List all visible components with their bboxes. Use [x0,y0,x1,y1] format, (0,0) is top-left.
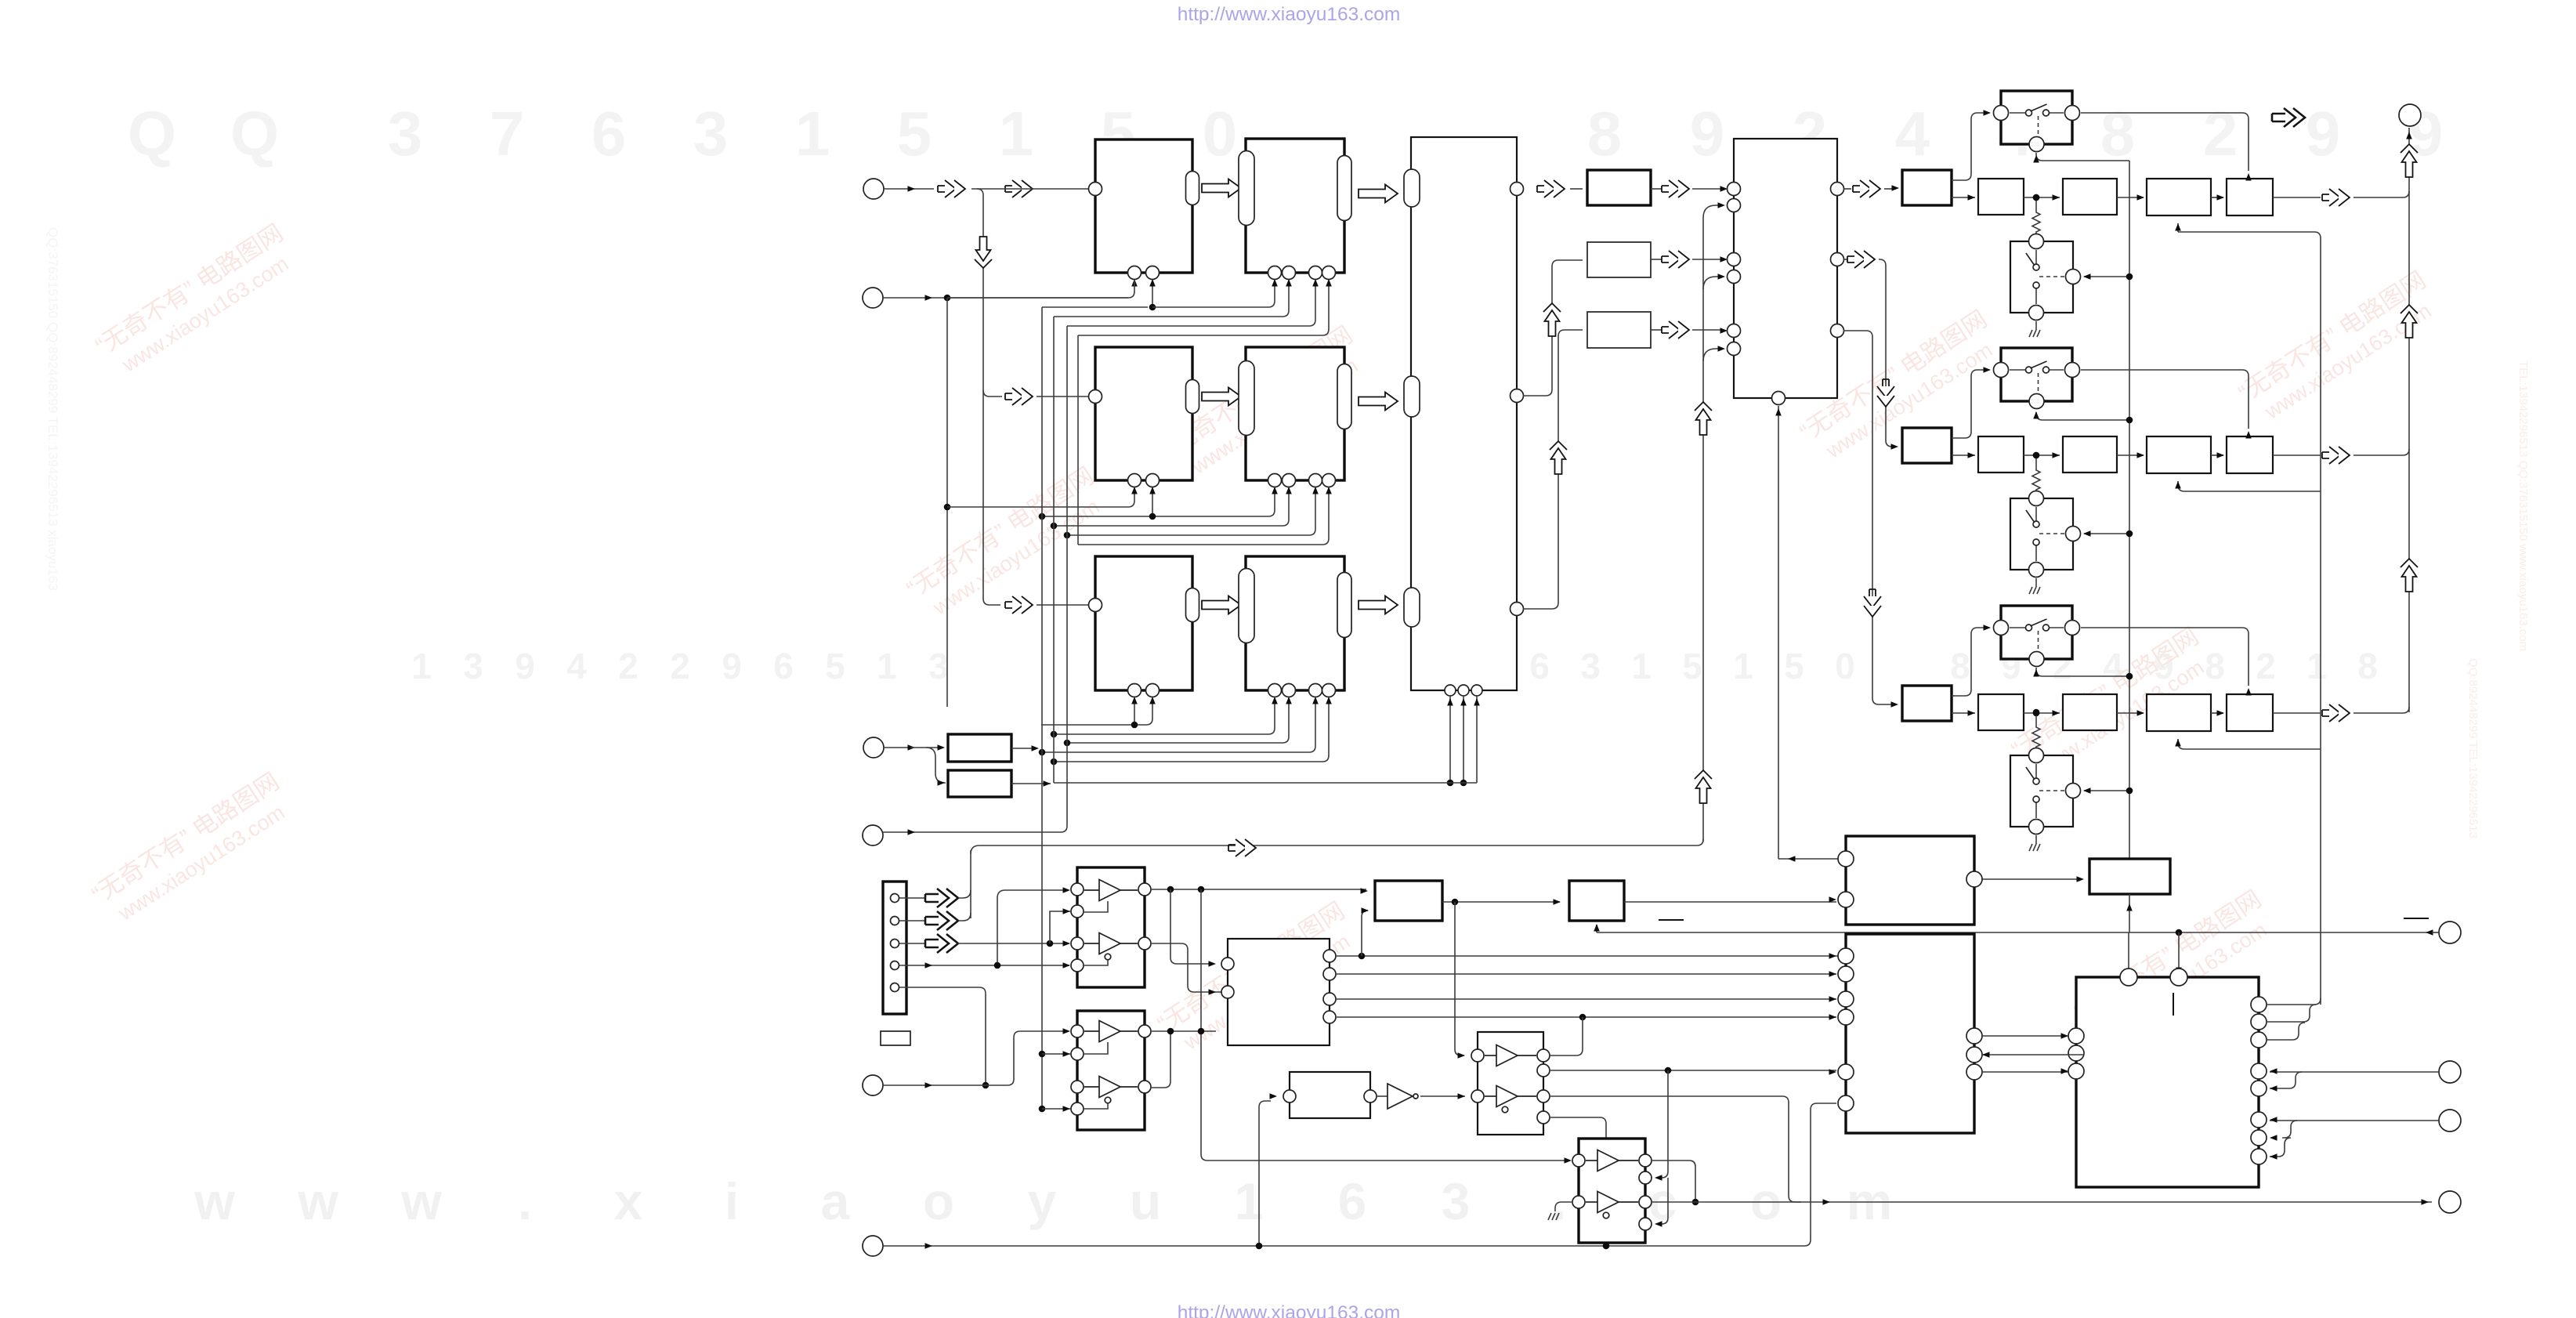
riser C out1 to D in2 [1362,911,1368,956]
resistor R-row2 [2035,455,2037,468]
pin U10 Rg [2251,1130,2267,1146]
block R7c [1587,312,1651,348]
svg-text:4: 4 [1895,99,1930,168]
arrow B1 to B2 [1202,179,1241,197]
switch contacts SW1 [2010,112,2026,114]
svg-text:9: 9 [515,646,535,686]
pin U9 L5 [1838,991,1854,1007]
wire E to inverter [1377,1095,1387,1097]
pin U8 R3 [1831,324,1844,338]
svg-text:.: . [1552,1172,1566,1230]
pin OA2 L3 [1071,1081,1084,1093]
pin U9 L7 [1838,1064,1854,1080]
riser pin 1471 [1152,281,1153,307]
branch to NAND C in1 [1170,889,1214,964]
svg-text:QQ:892448299 TEL:13942296513: QQ:892448299 TEL:13942296513 [2466,658,2480,838]
buffer amp H1 [1597,1150,1619,1171]
opamp block OA1 [1077,867,1145,987]
port pill B4 in [1239,361,1254,436]
wire R3a-R3b [1952,712,1975,714]
wire ctrl R2 to U10 Rf [2270,1120,2439,1121]
buffer amp OA2a [1099,1021,1120,1042]
signal arrow A3 row2 [1005,388,1033,405]
block D prescaler [1375,881,1442,921]
pin U10 Rh [2251,1149,2267,1164]
output terminal J-RF [2399,104,2421,126]
strip arrow 3 [899,943,924,944]
svg-text:5: 5 [897,99,932,168]
mute switch SM1 [2010,241,2073,313]
bundle row3 wire b [1054,698,1275,734]
pin SM3 B [2029,820,2044,835]
buffer amp H2 [1597,1192,1619,1213]
resistor R-row3 [2035,712,2037,725]
block J divider [1569,881,1624,921]
wire G R4 down [1550,1117,1606,1246]
ground below SM1 [2035,321,2037,330]
up arrow on route3 [1550,441,1567,450]
block B3 tuner row2 [1095,347,1192,480]
svg-text:QQ:376315150 QQ:892448299 TE: QQ:376315150 QQ:892448299 TEL:1394229651… [45,227,60,591]
wire R3c-R3d [2117,712,2144,714]
svg-text:Q: Q [128,99,176,168]
wire U9-U10 c [1982,1071,2068,1073]
block R2e [2227,436,2273,473]
pin U10 Rd [2251,1063,2267,1079]
pin U8 R1 [1831,183,1844,196]
wire A5 to block B5 [1037,604,1089,606]
svg-text:9: 9 [722,646,742,686]
svg-text:0: 0 [1835,646,1855,686]
port pill U7 in1 [1404,169,1420,207]
wire R1c-R1d [2117,197,2144,198]
block B5 tuner row3 [1095,556,1192,690]
IC U7 switch matrix [1411,137,1517,690]
connector strip CN1 [883,882,906,1014]
s-branch to U10 Rh [2270,1138,2291,1157]
pin U9 L3 [1838,948,1854,964]
pin H R4 [1639,1218,1652,1230]
branch into J bottom [1596,925,1597,932]
pin SM2 B [2029,563,2044,578]
pins B6 bottom [1268,684,1282,697]
port pill B2 out [1337,156,1351,221]
pin B3 in [1089,390,1102,404]
input terminal J2 [863,288,883,308]
mute switch SM2 [2010,498,2073,570]
strip arrow 2 [899,920,924,922]
wire R2c-R2d [2117,454,2144,456]
terminal ctrl R2 [2439,1110,2461,1132]
wire R2a to SW2 [1952,370,1986,438]
bus vertical x1376 [1077,335,1079,545]
pin B1 in [1089,183,1102,196]
pin C L1 [1221,958,1234,970]
svg-text:1: 1 [1631,646,1652,686]
pin U9 L4 [1838,966,1854,982]
pin SM2 T [2029,491,2044,506]
long wire y1534 [1652,1201,2432,1203]
port pill B4 out [1337,364,1351,429]
pin OA2 L2 [1071,1048,1084,1060]
wire RA out [1011,748,1035,749]
wire U7 b2 down [1463,696,1464,783]
pin U7 b1 [1445,685,1456,696]
pin B1 b2 [1146,266,1160,280]
AGC riser left [970,850,971,918]
wire K bottom to line [2129,894,2130,932]
pin H R2 [1639,1171,1652,1184]
svg-text:6: 6 [1529,646,1550,686]
strip pin 3 [891,940,899,948]
strip wire 4 [899,965,1069,966]
svg-text:u: u [1130,1172,1161,1230]
block R3b [1978,694,2024,730]
wire J1 to IF block [971,188,1089,190]
svg-text:2: 2 [618,646,639,686]
feedback from U10 p3 [2267,1023,2305,1040]
wire chev1 riser merge [958,890,971,898]
wire R1a-R1b [1952,197,1975,198]
riser pin 1448 row3 [1134,698,1135,725]
pin U10 Rb [2251,1014,2267,1030]
wire to NAND C in2 [1152,943,1222,992]
wire H R1 to long [1652,1160,1695,1202]
pin U10 Ra [2251,997,2267,1012]
pin U10 T1 [2120,969,2137,986]
pin B5 b2 [1146,684,1160,697]
pin U8 L1 [1728,183,1741,196]
bundle row1 wire d [1067,281,1315,326]
wire SW2 to R2e top [2242,370,2249,429]
svg-text:8: 8 [2357,646,2378,686]
wire to opamp A pin1 [997,890,1064,965]
svg-text:x: x [614,1172,643,1230]
svg-text:8: 8 [2205,646,2225,686]
pin G R2 [1537,1064,1550,1077]
wire E input riser [1259,1101,1271,1246]
pin G L1 [1471,1049,1484,1062]
ground stub H [1555,1202,1572,1211]
svg-text:3: 3 [928,646,949,686]
wire to R7a [1570,188,1583,190]
wire U8 R3 route down [1843,331,1893,704]
pin C R4 [1323,1011,1336,1023]
logic block G [1478,1032,1543,1135]
pin U9 L1 [1838,851,1854,867]
bundle row2 wire e [1078,488,1329,545]
port pill B6 in [1239,569,1254,643]
wire SW1 out [2081,112,2242,114]
wire R2 route down [1879,259,1894,447]
IC U8 mixer [1734,139,1837,398]
port pill B2 in [1239,151,1254,226]
wire chev2 riser merge [958,913,971,921]
wire bus to SM1 [2084,276,2129,277]
pin U10 Rf [2251,1112,2267,1128]
svg-text:http://www.xiaoyu163.com: http://www.xiaoyu163.com [1178,1302,1401,1318]
port pill B6 out [1337,573,1351,638]
switch contacts SW2 [2010,369,2026,371]
ground below SM3 [2035,835,2037,844]
block K PLL reset [2089,859,2170,894]
pin U9 L2 [1838,892,1854,907]
signal arrow A1 [938,180,965,197]
resistor R-row1 [2035,197,2037,210]
wire branch to H R2 [1656,1070,1668,1178]
arrow R7a out [1651,188,1662,190]
pin SW3 L [1994,621,2009,635]
pin OA2 L1 [1071,1025,1084,1037]
wire R2a-R2b [1952,454,1975,456]
svg-text:0: 0 [1203,99,1238,168]
feedback branch row3 [2178,739,2321,749]
switch contacts SW3 [2010,627,2026,628]
bus to output [2408,128,2410,712]
pin SM3 R [2066,784,2081,798]
svg-text:2: 2 [670,646,690,686]
pins B2 bottom [1268,266,1282,280]
wire R3b-R3c [2024,712,2060,714]
wire R2 out to bus [2353,449,2409,455]
relay switch SW1 [2001,91,2072,144]
bundle row1 wire b [1042,306,1148,308]
wire R3a to SW3 [1952,628,1986,696]
pin OA1 R1 [1138,883,1151,896]
strip wire 5 [899,987,986,1085]
wire SW1 to R1e top [2242,113,2249,171]
pin U8 L5 [1728,324,1741,338]
port pill U7 in2 [1404,376,1420,417]
block R3a [1902,686,1952,721]
svg-text:1: 1 [411,646,432,686]
wire SW2 out [2081,369,2242,371]
pin OA1 L3 [1071,937,1084,950]
svg-text:3: 3 [463,646,483,686]
svg-text:9: 9 [2306,99,2341,168]
pin OA1 L1 [1071,883,1084,896]
wire J5 to opamp B [883,1031,1064,1085]
key rect below strip [881,1031,910,1045]
wire R1e out [2273,197,2321,198]
terminal ctrl R1 [2439,1061,2461,1083]
svg-text:1: 1 [1733,646,1753,686]
wire U7 b1 down [1449,696,1451,783]
pin H R1 [1639,1154,1652,1167]
wire G R3 merge [1550,1096,1801,1202]
pin SW2 L [1994,363,2009,378]
svg-text:3: 3 [1580,646,1601,686]
pin C R3 [1323,993,1336,1005]
wire J3 split [910,748,946,783]
wire U7 out3 route [1523,330,1583,609]
wire F out to G [1420,1095,1465,1097]
block B2 filter row1 [1246,139,1344,273]
block B4 filter row2 [1246,347,1344,480]
wire bus to SW2 B [2036,412,2129,420]
stub to opamp A pin2 [1050,911,1070,943]
watermark faint digit row top [128,99,2443,168]
svg-text:y: y [1028,1172,1057,1230]
block R7b [1587,242,1651,277]
wire R1a to SW1 [1952,113,1986,180]
wire to R1a [1884,188,1896,190]
pin OA1 R2 [1138,937,1151,950]
svg-text:c: c [1648,1172,1677,1230]
wire J6 long [883,1103,1836,1246]
block R3d [2147,694,2211,731]
wire SW1 B to bus [2036,153,2129,161]
buffer amp OA1b [1099,933,1120,954]
wire G R2 long [1550,1070,1836,1071]
wire R1b-R1c [2024,197,2060,198]
pin G R4 [1537,1111,1550,1124]
strip pin 2 [891,917,899,925]
pins B4 bottom [1268,474,1282,487]
up arrow AGC a [1695,402,1712,411]
wire A3 to block B3 [1037,396,1089,397]
inner wire OA1 [1084,901,1108,912]
up arrow out c [2401,559,2418,567]
buffer amp OA2b [1099,1077,1120,1098]
block R3c [2063,694,2117,730]
block R1e [2227,179,2273,215]
arrow U8 R2 out [1843,259,1847,260]
branch to row2 arrow [983,390,1002,396]
wire R1 out to bus [2353,191,2409,197]
pin U10 Lb [2068,1045,2084,1061]
pin U9 R1 [1966,871,1982,887]
wire ctrl R1 to U10 Rd [2270,1071,2439,1073]
pin SM3 T [2029,748,2044,763]
svg-text:w: w [400,1172,442,1230]
up arrow out b [2401,305,2418,313]
block R2a [1902,428,1952,463]
relay switch SW3 [2001,606,2072,659]
svg-text:3: 3 [1442,1172,1471,1230]
svg-text:7: 7 [490,99,525,168]
overbar near data terminal [2404,918,2429,919]
stub OA2 pin2 [1042,1053,1070,1055]
svg-text:m: m [1847,1172,1893,1230]
pin E out [1364,1090,1377,1103]
long wire AGC y1082 [971,839,1703,854]
feedback bus vertical [2320,238,2321,1005]
wire G R1 up to C out4 [1550,1017,1583,1055]
pin SW3 B [2029,652,2044,667]
pin G L2 [1471,1090,1484,1103]
block R1a [1902,170,1952,205]
wire bus to SM3 [2084,790,2129,791]
terminal data in [2439,922,2461,943]
wire bus to SM2 [2084,533,2129,534]
inner wire OA2b [1084,1103,1108,1109]
bundle from U7 bottom [1054,782,1477,784]
block RA xtal filter [948,734,1011,762]
pin U10 Rc [2251,1032,2267,1048]
pin U9 R3 [1966,1047,1982,1063]
pin OA2 L4 [1071,1103,1084,1115]
arrow B6 to U7 [1359,596,1398,614]
pin U8 L3 [1728,253,1741,266]
signal arrow A5 row3 [1005,596,1033,614]
pin SW2 R [2065,363,2080,378]
input terminal J4 [863,825,883,845]
arrow R7b out [1651,259,1662,260]
wire C out4 [1337,1016,1836,1018]
vertical bus from J2 [946,298,948,707]
pin U7 out1 [1511,183,1524,196]
block R2b [1978,436,2024,473]
pin U7 out3 [1511,603,1524,616]
block R7a [1587,170,1651,205]
buffer amp OA1a [1099,880,1120,901]
down chevron row3 [1864,589,1881,617]
dots feeding OA2 [1039,1051,1046,1058]
up arrow AGC b [1695,770,1712,779]
pin U9 R4 [1966,1064,1982,1080]
wire J out to U9 [1624,901,1836,903]
pin SM1 B [2029,306,2044,320]
svg-text:3: 3 [388,99,423,168]
pin SW1 B [2029,137,2044,152]
IC U9a PLL upper [1846,836,1974,925]
svg-text:1: 1 [2306,646,2327,686]
bundle row1 wire b2 [1152,281,1275,307]
wire OA1 out1 [1152,889,1366,890]
bundle row3 wire c [1067,698,1289,743]
pin C R2 [1323,968,1336,980]
arrow B5 to B6 [1202,596,1241,614]
inverter F [1387,1084,1413,1109]
bus K vertical [2129,161,2130,859]
tick inside U10 [2173,993,2174,1016]
arrow R1 out [2322,189,2350,206]
wire SW3 out [2081,627,2242,628]
bundle row3 wire a [1041,698,1152,725]
wire U9-U10 b [1982,1054,2084,1055]
svg-text:3: 3 [693,99,729,168]
arrow B2 to U7 [1359,185,1398,203]
riser pin 1471 row2 [1152,488,1153,516]
bundle row2 wire b [1042,488,1275,516]
inner wire OA2 [1084,1042,1108,1054]
port pill U7 in3 [1404,588,1420,627]
bundle row2 wire a [947,488,1134,507]
pin U9 R2 [1966,1028,1982,1044]
pin C R1 [1323,950,1336,962]
branch to U8 L6 [1703,349,1722,361]
svg-text:8: 8 [1950,646,1970,686]
wire C out3 [1337,998,1836,1000]
svg-text:9: 9 [1690,99,1725,168]
arrow on AGC wire [1228,839,1256,856]
pin U10 T2 [2170,969,2187,986]
bundle row3 wire d [1042,698,1315,752]
svg-text:8: 8 [2100,99,2136,168]
block B1 tuner row1 [1095,139,1192,273]
opamp block H [1579,1139,1645,1243]
svg-text:4: 4 [566,646,587,686]
buffer amp G1 [1496,1045,1518,1066]
wire U7 out2 route [1523,260,1583,396]
port pill B1 out [1186,172,1199,205]
pin U8 L2 [1728,199,1741,212]
bundle row1 wire c [1054,281,1289,317]
wire U10 top1 up to K line [2128,932,2129,986]
svg-text:1: 1 [877,646,897,686]
wire OA2 out1 [1152,1030,1216,1032]
